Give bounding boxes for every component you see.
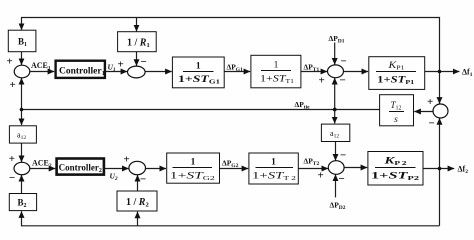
svg-text:ACE2: ACE2: [32, 159, 52, 170]
block P2 transfer KP2/(1+STP2): [368, 152, 423, 186]
wire dPG2: G2 to T2: [220, 168, 249, 170]
block T2 transfer 1/(1+STT2): [249, 153, 298, 184]
wire summer A2 to block G1: [145, 71, 172, 73]
svg-text:ΔPD2: ΔPD2: [330, 201, 346, 212]
wire a12 mid box down into summer B3: [335, 142, 337, 161]
box a12 mid: [321, 124, 349, 141]
svg-text:−: −: [341, 56, 347, 68]
wire tie junction down into a12 mid box: [334, 110, 336, 124]
wire df2 vertical down to bottom line: [439, 169, 441, 226]
wire dPD2 arrow up into summer B3: [335, 175, 337, 198]
fraction block T1: [260, 61, 294, 86]
box B1: [8, 30, 36, 52]
node junction df2: [438, 167, 442, 171]
wire dPT2: T2 to summer B3: [298, 168, 328, 170]
svg-text:Controller1: Controller1: [59, 67, 105, 78]
block T12/s: [380, 95, 414, 126]
svg-text:ΔPD1: ΔPD1: [329, 34, 345, 45]
svg-text:+: +: [124, 154, 130, 166]
svg-text:+: +: [10, 79, 16, 91]
block G2 transfer 1/(1+STG2): [167, 153, 220, 183]
wire U2: Controller2 to summer B2: [104, 168, 129, 170]
svg-text:+: +: [318, 170, 324, 182]
box B2: [9, 194, 36, 211]
wire ACE2: summer B1 to Controller2: [30, 168, 56, 170]
svg-text:U2: U2: [110, 172, 118, 183]
wire U1: Controller1 to summer A2: [105, 71, 127, 73]
wire df1 output: [425, 71, 460, 73]
wire df2 vertical up into tie summer bottom: [439, 118, 441, 168]
svg-text:+: +: [118, 59, 124, 71]
svg-text:U1: U1: [108, 63, 116, 74]
svg-text:Controller2: Controller2: [59, 163, 102, 175]
svg-text:1: 1: [271, 158, 276, 168]
svg-text:1 / R2: 1 / R2: [126, 197, 149, 209]
box Controller2: [57, 159, 104, 175]
wire tie junction up into summer A3 bottom: [334, 78, 336, 110]
svg-text:+: +: [427, 96, 433, 108]
wire summer B3 to block P2: [344, 167, 367, 169]
wire dPD1 arrow into summer A3: [334, 43, 336, 65]
svg-text:−: −: [340, 150, 346, 162]
summer A2: [128, 66, 146, 78]
block P1 transfer KP1/(1+STP1): [369, 57, 425, 90]
wire a12 left box to summer B1: [21, 143, 23, 162]
wire top feedback df1 line: [22, 18, 440, 72]
summer A3: [328, 65, 344, 78]
wire B2 up into summer B1 bottom: [21, 175, 23, 194]
svg-text:ΔPtie: ΔPtie: [295, 100, 311, 111]
svg-text:ΔPT1: ΔPT1: [304, 63, 320, 74]
block G1 transfer 1/(1+STG1): [172, 57, 224, 88]
svg-text:−: −: [141, 56, 147, 68]
svg-text:ΔPG1: ΔPG1: [227, 63, 244, 74]
fraction block P2: [371, 157, 419, 183]
wire 1/R1 to summer A2: [136, 52, 138, 66]
wire branch into 1/R1: [136, 18, 138, 32]
fraction block T2: [252, 158, 296, 183]
fraction block T12/s: [389, 100, 404, 125]
summer B3: [328, 161, 344, 175]
wire left spine up into summer A1 bottom: [21, 78, 23, 110]
svg-text:ACE1: ACE1: [31, 61, 51, 72]
wire ACE1: summer A1 to Controller1: [30, 71, 54, 73]
wire dPT1: T1 to summer A3: [301, 71, 327, 73]
node junction df1: [438, 70, 442, 74]
svg-text:+: +: [7, 56, 13, 68]
svg-text:−: −: [339, 173, 345, 185]
wire summer B2 to block G2: [146, 168, 166, 170]
wire left spine down into a12 left box: [21, 110, 23, 126]
svg-text:1: 1: [196, 62, 201, 72]
svg-text:Δf2: Δf2: [458, 165, 469, 176]
box a12 left: [9, 126, 36, 143]
wire bottom line up into 1/R2 box: [137, 212, 139, 226]
wire tie summer to T12 block: [414, 111, 433, 113]
block T1 transfer 1/(1+STT1): [251, 55, 301, 88]
svg-text:+: +: [9, 153, 15, 165]
svg-text:1: 1: [191, 158, 196, 168]
svg-text:1 / R1: 1 / R1: [127, 38, 150, 50]
svg-text:Δf1: Δf1: [462, 68, 473, 79]
node junction tie mid: [333, 108, 337, 112]
node junction tie left: [20, 108, 24, 112]
wire B1 to summer A1: [21, 52, 23, 65]
svg-text:ΔPG2: ΔPG2: [222, 159, 239, 170]
summer B2: [129, 161, 146, 174]
wire 1/R2 up into summer B2 bottom: [137, 175, 139, 191]
svg-text:−: −: [429, 118, 435, 130]
svg-text:1: 1: [274, 61, 279, 71]
box Controller1: [56, 61, 105, 78]
svg-text:ΔPT2: ΔPT2: [304, 157, 320, 168]
fraction block G1: [178, 62, 220, 86]
wire tie line from T12 to left spine: [22, 109, 380, 111]
box 1/R1: [118, 32, 157, 52]
svg-text:−: −: [140, 174, 146, 186]
fraction block P1: [376, 60, 416, 86]
box 1/R2: [117, 191, 157, 211]
svg-text:+: +: [319, 75, 325, 87]
svg-text:−: −: [9, 172, 15, 184]
wire df1 vertical into tie summer top: [439, 72, 441, 104]
summer M tie: [433, 104, 448, 118]
fraction block G2: [170, 158, 215, 183]
wire summer A3 to block P1: [344, 71, 369, 73]
wire df2 output: [423, 168, 454, 170]
svg-text:s: s: [394, 115, 398, 125]
summer B1: [14, 162, 30, 174]
wire dPG1: G1 to T1: [224, 71, 250, 73]
svg-text:−: −: [340, 75, 346, 87]
summer A1: [14, 65, 30, 78]
wire bottom feedback df2 line: [22, 211, 440, 226]
